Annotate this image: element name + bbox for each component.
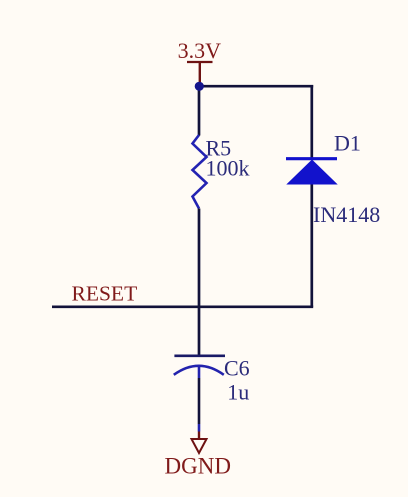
svg-text:RESET: RESET (72, 282, 138, 306)
svg-text:100k: 100k (206, 156, 250, 181)
diode D1 triangle (anode, pointing up) (288, 160, 337, 184)
diode D1 cathode bar (286, 157, 337, 160)
svg-text:3.3V: 3.3V (178, 38, 222, 63)
svg-text:DGND: DGND (165, 454, 231, 479)
power 3.3V stem (199, 63, 201, 86)
ground pin stub (blue) (198, 424, 201, 432)
resistor R5 zigzag (193, 135, 207, 209)
wire: right vertical lower (diode anode to RESET wire) (310, 183, 313, 307)
wire: capacitor to ground (198, 378, 201, 424)
svg-text:C6: C6 (224, 356, 250, 381)
capacitor bottom pin stub (blue) (198, 366, 201, 378)
svg-text:1u: 1u (227, 380, 249, 405)
wire: horizontal RESET net (52, 305, 313, 308)
ground DGND open triangle (192, 439, 207, 453)
ground DGND stem (dark red) (198, 432, 200, 440)
svg-text:D1: D1 (334, 131, 361, 156)
wire: resistor bottom to capacitor top (crosses RESET wire) (198, 209, 201, 356)
wire: right vertical upper (to diode cathode) (310, 85, 313, 159)
power 3.3V bar symbol (187, 61, 213, 63)
capacitor C6 bottom curved plate (174, 366, 224, 375)
wire: main vertical from node to resistor top (198, 86, 201, 135)
svg-text:IN4148: IN4148 (313, 202, 380, 227)
capacitor C6 top plate (174, 354, 225, 357)
wire: top horizontal from node to right branch (199, 85, 313, 88)
node junction dot (195, 82, 204, 91)
